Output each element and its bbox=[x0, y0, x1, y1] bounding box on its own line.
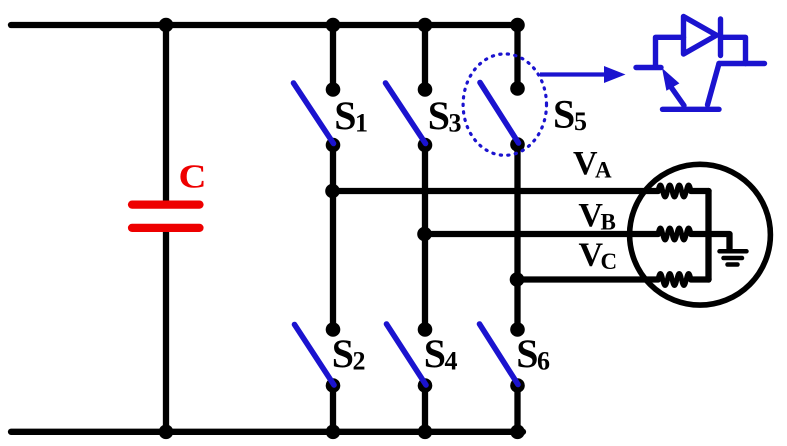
IGBT emitter lead bbox=[636, 65, 661, 70]
wire bottom DC bus bbox=[11, 429, 523, 435]
svg-text:4: 4 bbox=[445, 347, 458, 376]
inductor coil phase C bbox=[658, 274, 691, 286]
terminal dot S5 top bbox=[510, 81, 525, 96]
svg-text:S: S bbox=[516, 331, 538, 376]
terminal dot S2 bottom bbox=[326, 378, 341, 393]
svg-text:C: C bbox=[601, 249, 618, 274]
IGBT emitter slant shaft bbox=[671, 87, 684, 106]
wire neutral bus bbox=[705, 191, 711, 280]
terminal dot S4 bottom bbox=[418, 378, 433, 393]
switch S1 blade bbox=[294, 83, 334, 144]
capacitor C bottom plate bbox=[132, 224, 200, 232]
junction dot bottom bus at capacitor bbox=[159, 425, 174, 440]
switch S4 blade bbox=[387, 324, 427, 385]
callout arrow shaft bbox=[540, 72, 606, 76]
svg-text:S: S bbox=[334, 93, 356, 138]
wire phase A coil to neutral corner bbox=[691, 188, 709, 194]
svg-text:6: 6 bbox=[537, 347, 550, 376]
wire phase C coil to neutral bbox=[691, 276, 709, 282]
IGBT collector bar bbox=[719, 61, 765, 66]
inductor coil phase A bbox=[658, 185, 691, 197]
svg-text:1: 1 bbox=[355, 108, 368, 137]
wire S5 top stub bbox=[514, 25, 520, 89]
terminal dot S3 top bbox=[418, 82, 433, 97]
node dot phase A bbox=[325, 184, 340, 199]
switch S3 blade bbox=[386, 83, 426, 144]
junction dot bottom bus at S6 bbox=[510, 425, 525, 440]
svg-text:S: S bbox=[428, 93, 450, 138]
IGBT collector slant bbox=[708, 64, 720, 105]
node dot phase C bbox=[510, 272, 525, 287]
svg-text:A: A bbox=[595, 158, 612, 183]
ground bar 1 bbox=[720, 249, 747, 254]
svg-text:2: 2 bbox=[353, 347, 366, 376]
junction dot top bus at S3 bbox=[418, 18, 433, 33]
node dot phase B bbox=[417, 227, 432, 242]
switch S2 blade bbox=[295, 325, 335, 386]
junction dot top bus at S1 bbox=[326, 18, 341, 33]
wire S3 top stub bbox=[422, 25, 428, 90]
wire S4 bottom leg bbox=[422, 386, 428, 432]
capacitor C top plate bbox=[132, 201, 200, 209]
svg-text:B: B bbox=[601, 210, 616, 235]
ground bar 2 bbox=[724, 256, 743, 261]
diode D triangle bbox=[684, 17, 717, 55]
inductor coil phase B bbox=[658, 228, 691, 240]
junction dot top bus at capacitor bbox=[159, 18, 174, 33]
wire top DC bus bbox=[11, 22, 518, 28]
ground bar 3 bbox=[728, 262, 738, 267]
wire capacitor top leg bbox=[163, 25, 169, 203]
IGBT emitter arrow head bbox=[662, 68, 679, 91]
wire S3 to S4 leg bbox=[422, 145, 428, 330]
junction dot bottom bus at S2 bbox=[326, 425, 341, 440]
terminal dot S2 top bbox=[326, 322, 341, 337]
terminal dot S1 bottom bbox=[326, 138, 341, 153]
wire phase C line bbox=[518, 276, 659, 282]
IGBT left loop wire bbox=[656, 37, 684, 67]
wire S1 to S2 leg bbox=[330, 145, 336, 330]
wire phase B coil to ground tap bbox=[691, 234, 730, 249]
terminal dot S1 top bbox=[326, 82, 341, 97]
diode D cathode bar bbox=[718, 19, 723, 56]
junction dot bottom bus at S4 bbox=[418, 425, 433, 440]
svg-text:S: S bbox=[553, 92, 575, 137]
terminal dot S3 bottom bbox=[418, 138, 433, 153]
wire S6 bottom leg bbox=[514, 386, 520, 432]
wire S2 bottom leg bbox=[330, 386, 336, 432]
wire S1 top stub bbox=[330, 25, 336, 90]
IGBT right loop wire bbox=[721, 37, 746, 63]
junction dot top bus at S5 bbox=[510, 18, 525, 33]
terminal dot S5 bottom bbox=[510, 137, 525, 152]
wire S5 to S6 leg bbox=[514, 145, 520, 330]
IGBT base bar bbox=[663, 107, 720, 112]
terminal dot S6 top bbox=[510, 322, 525, 337]
switch S5 blade bbox=[480, 83, 519, 144]
svg-text:C: C bbox=[179, 159, 207, 196]
svg-text:S: S bbox=[332, 331, 354, 376]
svg-text:S: S bbox=[424, 331, 446, 376]
motor circle M bbox=[630, 164, 771, 305]
svg-text:5: 5 bbox=[574, 107, 587, 136]
wire phase A line bbox=[333, 188, 658, 194]
wire capacitor bottom leg bbox=[163, 228, 169, 432]
terminal dot S4 top bbox=[418, 322, 433, 337]
svg-text:3: 3 bbox=[449, 108, 462, 137]
dashed highlight ellipse around S5 bbox=[463, 54, 546, 155]
callout arrow head bbox=[604, 66, 626, 83]
terminal dot S6 bottom bbox=[510, 378, 525, 393]
wire phase B line bbox=[425, 231, 658, 237]
switch S6 blade bbox=[480, 324, 519, 385]
